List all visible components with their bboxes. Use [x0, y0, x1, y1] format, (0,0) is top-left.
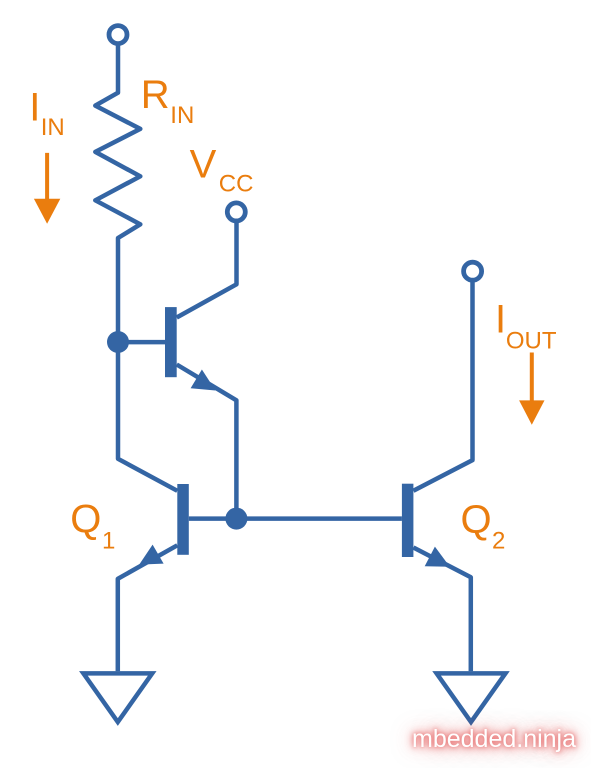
wire Q2 collector to output terminal [413, 281, 472, 491]
svg-text:2: 2 [492, 527, 505, 554]
terminal output [464, 262, 482, 280]
node B junction dot [225, 508, 247, 530]
svg-text:IN: IN [41, 114, 65, 141]
svg-text:I: I [29, 86, 40, 130]
transistor Q1 bar [177, 484, 189, 555]
transistor Q2 emitter arrow [425, 547, 450, 567]
resistor R_IN with leads [95, 46, 140, 343]
transistor Q3 emitter arrow [191, 370, 216, 391]
wire Q3 collector to Vcc terminal [177, 222, 237, 318]
node A junction dot [107, 331, 129, 353]
transistor Q3 bar [165, 307, 177, 377]
wire Q3 base [118, 340, 166, 345]
transistor Q2 bar [402, 484, 414, 557]
transistor Q1 emitter arrow [139, 545, 163, 565]
wire Q3 emitter down to node B [177, 365, 237, 519]
terminal Vcc [227, 203, 245, 221]
wire node A to Q1 collector [118, 342, 177, 491]
wire Q2 emitter to ground [413, 548, 470, 672]
svg-text:V: V [190, 142, 217, 186]
arrow I_IN [45, 153, 49, 200]
wire Q1 emitter to ground [118, 545, 178, 671]
svg-text:R: R [141, 73, 170, 117]
svg-text:CC: CC [219, 171, 254, 198]
svg-text:Q: Q [70, 497, 101, 541]
ground left [83, 673, 152, 722]
ground right [437, 673, 506, 722]
svg-text:IN: IN [170, 102, 194, 129]
watermark mbedded.ninja [412, 727, 576, 752]
arrow I_OUT [530, 353, 534, 403]
svg-text:OUT: OUT [506, 328, 557, 355]
svg-text:1: 1 [102, 527, 115, 554]
wire base rail Q1-Q2 [189, 516, 402, 521]
terminal input top [109, 26, 127, 44]
svg-text:I: I [495, 298, 506, 342]
svg-text:Q: Q [461, 498, 492, 542]
